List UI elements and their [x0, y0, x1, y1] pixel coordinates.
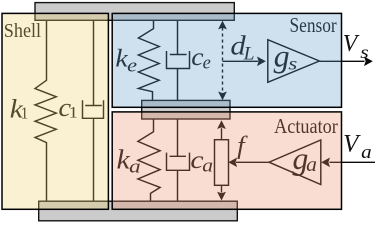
- shell box border: [2, 13, 108, 209]
- damper ca: [167, 119, 190, 200]
- label k1: [10, 94, 29, 123]
- input wire Va: [321, 158, 375, 168]
- svg-text:V: V: [343, 131, 361, 158]
- force actuator rectangle: [215, 140, 229, 186]
- actuator box border: [112, 112, 341, 209]
- label dL: [230, 31, 254, 65]
- middle wall bar: [142, 100, 230, 119]
- spring ke: [138, 21, 159, 101]
- svg-text:s: s: [360, 42, 369, 62]
- actuator translucent fill: [112, 112, 341, 209]
- label Vs: [343, 31, 369, 62]
- label ka: [117, 144, 141, 177]
- label ce: [191, 44, 211, 73]
- spring ka: [138, 119, 160, 200]
- label ca: [190, 145, 213, 176]
- wire force arrow up (actuator to middle wall): [217, 120, 226, 140]
- wire dL to gs input: [223, 57, 266, 67]
- arrowhead dL top: [218, 21, 227, 30]
- op-amp ga: [269, 140, 321, 185]
- spring k1: [35, 21, 56, 201]
- label Va: [343, 131, 372, 163]
- label c1: [58, 93, 78, 122]
- top wall bar: [35, 3, 234, 21]
- wire ga output to force actuator (force f): [228, 158, 269, 168]
- shell translucent fill: [2, 13, 108, 209]
- damper ce: [167, 21, 190, 101]
- label gs: [274, 38, 298, 74]
- output wire Vs: [319, 57, 372, 67]
- svg-text:a: a: [361, 142, 372, 163]
- label ke: [115, 45, 137, 76]
- op-amp gs: [268, 40, 320, 83]
- sensor translucent fill: [112, 13, 341, 107]
- dashed displacement line dL: [222, 28, 224, 94]
- arrowhead dL bottom: [218, 92, 227, 101]
- svg-text:V: V: [343, 31, 360, 57]
- sensor box border: [112, 13, 341, 107]
- wire force arrow down (actuator to bottom wall): [217, 185, 226, 200]
- damper c1: [83, 21, 104, 201]
- label ga: [292, 140, 317, 176]
- bottom wall bar: [39, 201, 238, 221]
